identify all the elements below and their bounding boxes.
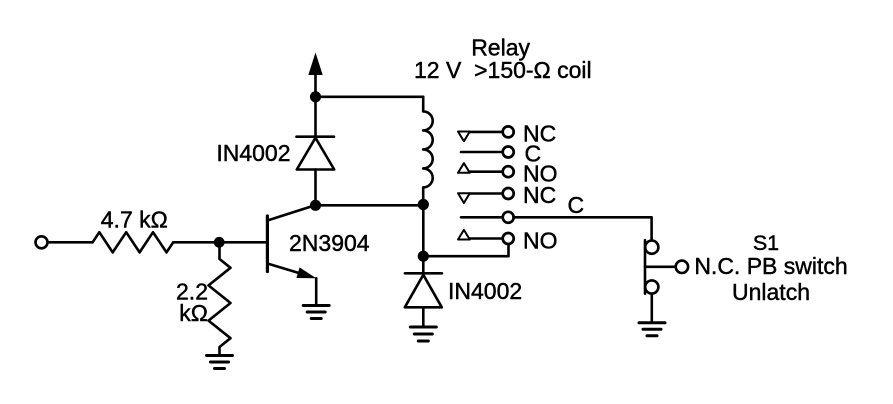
node B collector junction [310,200,321,211]
node C supply junction [310,91,321,102]
wire D2 to ground [422,307,425,326]
svg-text:S1: S1 [753,231,779,255]
transistor Q1 2N3904 [267,206,316,278]
svg-text:IN4002: IN4002 [216,140,290,166]
node E junction [418,251,429,262]
svg-text:kΩ: kΩ [179,300,208,326]
contact row 4 NC [458,182,556,208]
svg-text:12 V >150-Ω coil: 12 V >150-Ω coil [414,57,592,83]
contact row 1 NC [458,120,556,146]
resistor R2 2.2 kOhm [209,244,231,355]
wire emitter to ground [315,278,318,305]
svg-text:N.C. PB switch: N.C. PB switch [694,253,847,279]
svg-text:IN4002: IN4002 [448,278,522,304]
label IN4002 left [216,140,290,166]
ground under R2 [207,356,233,369]
label Unlatch [732,279,810,305]
label S1 [753,231,779,255]
ground under S1 [639,323,665,336]
wire node C to coil top [316,96,424,99]
diode D1 IN4002 [297,137,335,170]
wire collector node to coil bottom [316,204,424,207]
input terminal [36,236,48,248]
ground under emitter [303,306,329,319]
ground under D2 [410,327,436,341]
label 4.7 kOhm [101,207,168,233]
supply arrow [308,53,322,97]
wire D1 to node B [314,170,317,206]
wire node C to D1 [314,97,317,137]
label kOhm [179,300,208,326]
switch S1 pushbutton [645,240,688,293]
wire R1 to base [173,241,267,244]
svg-text:C: C [568,192,585,218]
label N.C. PB switch [694,253,847,279]
resistor R1 4.7 kOhm [93,232,174,252]
svg-text:NC: NC [523,182,556,208]
svg-text:2N3904: 2N3904 [289,230,370,256]
wire node D to node E [422,205,425,257]
svg-text:Unlatch: Unlatch [732,279,810,305]
svg-text:4.7 kΩ: 4.7 kΩ [101,207,168,233]
diode D2 IN4002 [405,273,442,307]
label 12 V coil rating [414,57,592,83]
label 2N3904 [289,230,370,256]
svg-text:NO: NO [523,228,558,254]
label C row 5 [568,192,585,218]
label 2.2 [176,278,208,304]
label IN4002 right [448,278,522,304]
wire input to R1 [48,241,93,244]
wire row 5 to switch [514,217,652,240]
contact row 3 NO [458,161,558,187]
wire S1 to ground [650,294,653,323]
label Relay [471,35,530,61]
contact row 6 NO [458,228,558,254]
node D coil bottom junction [418,199,429,210]
relay coil [423,97,433,205]
contact row 5 C [461,212,514,223]
contact row 2 C [461,141,541,167]
wire node E to D2 [422,256,425,272]
wire node E to NO contact [423,244,508,256]
node A base junction [214,237,225,248]
